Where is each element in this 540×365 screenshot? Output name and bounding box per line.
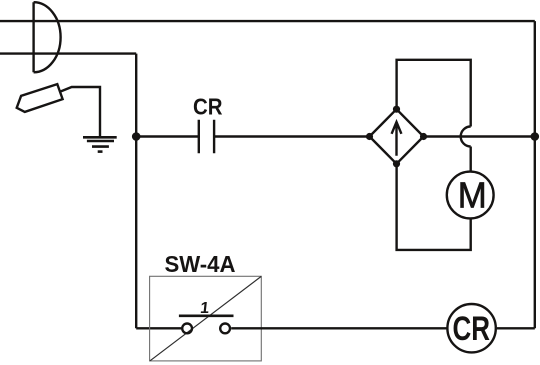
node junction J2 (531, 132, 540, 141)
wire right vertical (534, 21, 536, 328)
switch diagonal strike (150, 276, 261, 360)
wire motor bottom loop (397, 164, 471, 250)
rectifier bridge REC (366, 106, 427, 168)
motor M (447, 172, 494, 219)
wire rectifier right to bus (424, 135, 535, 137)
ground probe plug (17, 84, 63, 112)
node junction J1 (132, 132, 141, 141)
svg-text:M: M (458, 174, 487, 215)
wire probe to ground (61, 87, 100, 137)
switch terminal left (182, 324, 192, 334)
ground (83, 137, 117, 151)
wire left vertical drop (135, 54, 137, 329)
svg-text:SW-4A: SW-4A (165, 251, 236, 277)
wire capacitor to rectifier (214, 135, 369, 137)
wire junction to capacitor (136, 135, 199, 137)
wire hop crossover (461, 127, 471, 147)
wire switch to relay (231, 327, 447, 329)
svg-text:CR: CR (453, 310, 491, 348)
wire rectifier top loop (397, 60, 471, 127)
wire relay CR right lead (497, 327, 535, 329)
wire switch left lead (136, 327, 181, 329)
wire hop to motor (470, 147, 472, 172)
switch SW-4A box (150, 276, 262, 361)
switch contact bar (179, 314, 234, 317)
wire second line L2 (0, 52, 136, 54)
capacitor CR (199, 120, 214, 154)
relay coil CR (447, 304, 495, 352)
switch terminal right (220, 324, 230, 334)
svg-text:CR: CR (193, 94, 223, 120)
svg-text:1: 1 (199, 299, 210, 317)
wire top line L1 (0, 20, 535, 22)
AC plug P1 (34, 2, 61, 72)
